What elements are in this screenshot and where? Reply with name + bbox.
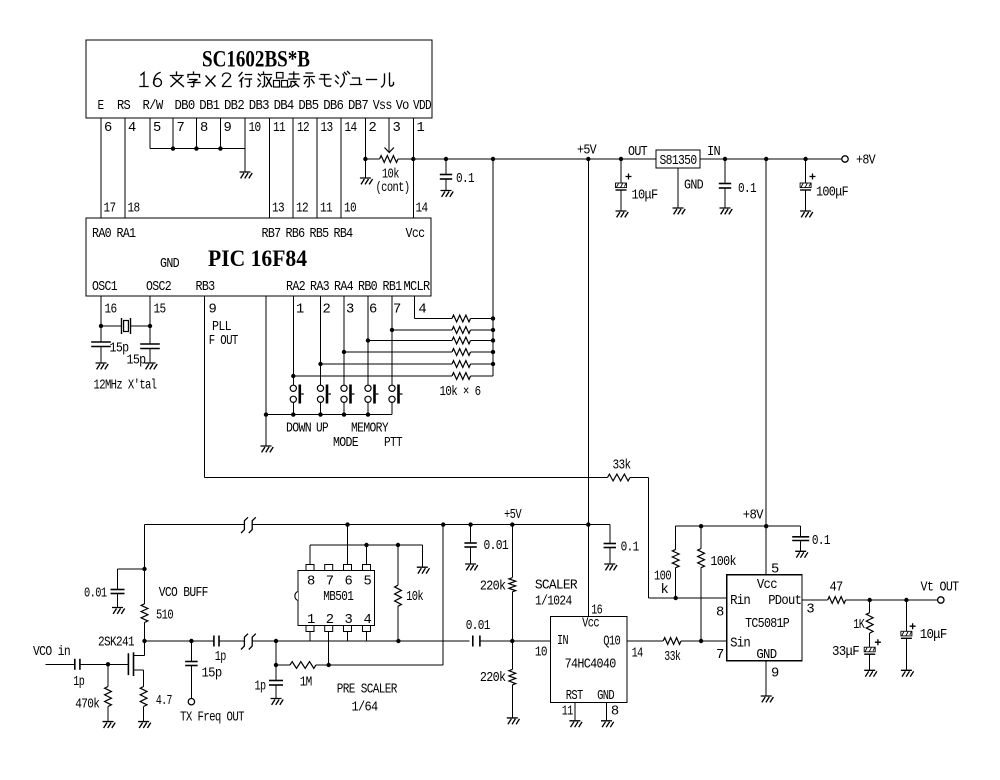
plus sign 10uF output (910, 623, 916, 629)
counter 74HC4040 box (551, 617, 628, 703)
junction DB2 on tie-low bus (218, 146, 222, 150)
ground 0.1 bypass at VDD (441, 191, 454, 197)
ground 0.01 bypass (465, 564, 478, 570)
svg-text:+5V: +5V (504, 508, 522, 523)
LCD subtitle Japanese 16chars x 2 lines LCD display module (drawn strokes) (140, 73, 148, 87)
svg-text:0.01: 0.01 (84, 587, 107, 602)
svg-text:8: 8 (611, 705, 619, 720)
ground MB501 bias net (417, 567, 430, 573)
resistor 10k pullup 2 (452, 327, 471, 334)
potentiometer 10k (cont) body (380, 156, 398, 163)
wire 74HC4040 GND to ground (606, 703, 608, 721)
svg-text:11: 11 (273, 121, 285, 136)
svg-text:5: 5 (364, 575, 372, 590)
wire pullup row 4 to +5V bus (471, 351, 494, 353)
wire 510 to drain node (144, 623, 146, 656)
junction 0.01 decoupling (142, 567, 146, 571)
junction pullup line RA3 (318, 362, 322, 366)
svg-text:(cont): (cont) (376, 180, 410, 196)
svg-text:PDout: PDout (768, 594, 801, 609)
terminal TX Freq OUT (188, 699, 194, 705)
svg-text:IN: IN (707, 145, 720, 160)
resistor 10k pullup 6 (452, 373, 471, 380)
wire LCD DB6 to PIC RB5 (316, 118, 318, 218)
junction pin2 bias (327, 663, 331, 667)
MB501 bottom pin 4 stub (363, 626, 371, 632)
svg-text:RA1: RA1 (117, 227, 136, 242)
svg-text:3: 3 (393, 121, 401, 136)
svg-text:RB6: RB6 (286, 227, 305, 242)
transistor Q1 drain lead (134, 655, 145, 657)
svg-text:VCO in: VCO in (33, 644, 70, 660)
wire MB501 pin6 up to +5V rail (347, 525, 349, 565)
svg-text:1/64: 1/64 (352, 700, 378, 716)
junction pullup bus row 5 (491, 362, 495, 366)
svg-text:2: 2 (369, 121, 377, 136)
junction bias feed on rail (441, 522, 445, 526)
capacitor 0.1 TC5081P bypass (800, 526, 802, 537)
svg-text:Vcc: Vcc (582, 617, 599, 632)
wire MB501 pin5 up (366, 545, 368, 565)
svg-text:DB0: DB0 (175, 99, 195, 114)
capacitor 0.01 coupling plates (472, 636, 474, 647)
resistor 33k series PLL F OUT (608, 474, 631, 481)
ground 0.01 VCO buffer (112, 608, 125, 614)
svg-text:33k: 33k (664, 649, 680, 665)
svg-text:470k: 470k (75, 697, 99, 713)
capacitor 0.1 bypass at regulator input (724, 159, 726, 184)
svg-text:1: 1 (307, 613, 315, 628)
wire 10kx6 +5V bus vertical (492, 159, 494, 376)
pushbutton switch PTT (389, 385, 395, 391)
svg-text:33k: 33k (613, 458, 631, 474)
MB501 top pin 8 stub (306, 565, 314, 571)
wire MB501 pin1 down to input line (309, 632, 311, 642)
svg-text:Q10: Q10 (603, 635, 620, 650)
svg-text:7: 7 (716, 648, 724, 663)
junction 100k number2 top (699, 524, 703, 528)
svg-text:1p: 1p (255, 680, 266, 695)
svg-text:74HC4040: 74HC4040 (565, 658, 616, 673)
wire 0.01 branch (118, 568, 145, 570)
wire PIC RA4 down to switch (343, 296, 345, 385)
junction 10k bias on input line (396, 639, 400, 643)
wire pullup row 3 to +5V bus (471, 340, 494, 342)
wire switch MEMORY to common rail (367, 402, 369, 414)
resistor 1K filter (869, 600, 871, 613)
wire pullup row 6 to +5V bus (471, 375, 494, 377)
svg-text:5: 5 (153, 121, 161, 136)
plus sign 100uF (810, 174, 816, 180)
junction +8V feed (764, 524, 768, 528)
wire MB501 pin3 down to input line (347, 632, 349, 642)
svg-text:Vo: Vo (396, 99, 409, 114)
capacitor 0.01 bypass bottom rail (470, 525, 472, 543)
svg-text:RB7: RB7 (262, 227, 281, 242)
svg-text:Vcc: Vcc (757, 578, 777, 593)
svg-text:15p: 15p (202, 667, 222, 682)
junction 1p/1M tap (274, 639, 278, 643)
junction 10k top bias net (396, 543, 400, 547)
junction DB0 on tie-low bus (171, 146, 175, 150)
wire +8V rail from S81350 IN to +8V terminal (700, 158, 842, 160)
svg-text:k: k (661, 582, 669, 598)
svg-text:1K: 1K (853, 618, 865, 633)
wire VCO input (46, 663, 75, 665)
ground 0.1 TC5081P (795, 551, 808, 557)
wire bias net pin8 pin5 to ground branch (310, 544, 422, 546)
svg-text:510: 510 (156, 609, 173, 624)
svg-text:F OUT: F OUT (209, 334, 238, 349)
ground 0.1 at regulator input (720, 208, 733, 214)
svg-text:8: 8 (307, 575, 315, 590)
wire switch PTT to common rail (391, 402, 393, 414)
junction 10uF filter (904, 598, 908, 602)
svg-text:RS: RS (117, 99, 130, 114)
wire 33k to TC5081P Sin (681, 640, 727, 642)
svg-text:PLL: PLL (212, 320, 231, 335)
MB501 bottom pin 2 stub (325, 626, 333, 632)
wire switch UP to common rail (320, 402, 322, 414)
regulator S81350 box (656, 150, 700, 168)
svg-text:0.1: 0.1 (456, 172, 474, 187)
svg-text:8: 8 (200, 121, 208, 136)
ground 1p MB501 (271, 699, 284, 705)
junction 15p tap (189, 639, 193, 643)
capacitor 100uF electrolytic (805, 159, 807, 183)
wire RB3 horizontal to 33k (205, 477, 608, 479)
svg-text:4.7: 4.7 (156, 694, 172, 709)
svg-text:17: 17 (104, 202, 116, 217)
svg-text:OSC1: OSC1 (92, 280, 117, 295)
svg-text:1p: 1p (73, 675, 84, 690)
line break symbol on +5V rail (241, 517, 248, 533)
ground 33uF (864, 670, 877, 676)
capacitor 0.1 bypass at rail end (609, 525, 611, 544)
svg-text:RB3: RB3 (196, 280, 215, 295)
svg-text:RA2: RA2 (286, 280, 305, 295)
svg-text:14: 14 (416, 202, 428, 217)
wire 1M to pin2 junction (316, 664, 443, 666)
junction 10uF on rail (619, 157, 623, 161)
prescaler MB501 body (298, 571, 375, 626)
svg-text:12MHz X'tal: 12MHz X'tal (94, 378, 157, 394)
crystal X1 12MHz leads (101, 325, 122, 327)
wire S81350 GND to ground (677, 168, 679, 208)
svg-text:220k: 220k (480, 670, 506, 686)
svg-text:100μF: 100μF (816, 186, 848, 201)
svg-text:MEMORY: MEMORY (351, 422, 389, 437)
svg-text:4: 4 (418, 303, 426, 318)
resistor 10k pullup 3 (452, 337, 471, 344)
ground 15p right (145, 363, 158, 369)
resistor 100k Rin pullup (675, 526, 677, 549)
junction drain node (142, 639, 146, 643)
wire +8V vertical feed down to TC5081P supply (765, 159, 767, 526)
wire LCD DB5 to PIC RB6 (292, 118, 294, 218)
svg-text:+8V: +8V (743, 509, 764, 524)
svg-text:7: 7 (326, 575, 334, 590)
capacitor 33uF electrolytic (869, 633, 871, 647)
wire bottom +5V rail with break (145, 524, 245, 526)
svg-text:DB1: DB1 (199, 99, 219, 114)
svg-text:RB5: RB5 (310, 227, 329, 242)
svg-text:15p: 15p (127, 354, 146, 369)
wire 1p cap branch below input line (275, 641, 277, 681)
wire MCLR down and right to pullup (413, 296, 415, 319)
resistor 10k MB501 bias (397, 545, 399, 585)
wire PIC RB0 down to switch (367, 296, 369, 385)
junction VDD on +5V rail (411, 157, 415, 161)
wire PIC RA3 down to switch (320, 296, 322, 385)
svg-text:11: 11 (320, 202, 332, 217)
svg-text:DB3: DB3 (249, 99, 269, 114)
wire pullup row 4 (344, 351, 452, 353)
wire Q10 output to 33k (627, 640, 663, 642)
svg-text:14: 14 (345, 121, 357, 136)
junction pullup line RB0 (366, 338, 370, 342)
resistor 4.7 source (140, 687, 147, 707)
junction switch rail UP (318, 412, 322, 416)
wire MB501 pin8 up to bias net (309, 545, 311, 565)
capacitor 1p input plates (74, 659, 76, 670)
junction 1M tap (274, 663, 278, 667)
terminal +8V input (842, 156, 848, 162)
capacitor 10uF output electrolytic (905, 600, 907, 631)
svg-text:2SK241: 2SK241 (98, 636, 134, 651)
junction switch rail DOWN (291, 412, 295, 416)
svg-text:2: 2 (323, 303, 331, 318)
capacitor 1p MB501 input plates (269, 680, 283, 682)
svg-text:MCLR: MCLR (404, 280, 430, 295)
svg-text:47: 47 (830, 581, 843, 596)
svg-text:11: 11 (562, 705, 573, 720)
svg-text:Sin: Sin (730, 636, 750, 652)
svg-text:DB5: DB5 (298, 99, 318, 114)
ground 74HC4040 RST (569, 721, 582, 727)
junction MB501 pin6 on rail (345, 522, 349, 526)
wire tie-low bus R/W DB0-DB3 (150, 148, 245, 150)
junction +8V feed down on rail (764, 157, 768, 161)
junction pullup line RB1 (390, 328, 394, 332)
wire TC5081P GND down (765, 661, 767, 696)
wiper arrow of contrast pot (385, 148, 394, 153)
svg-text:E: E (98, 99, 104, 114)
svg-text:GND: GND (756, 648, 776, 663)
plus sign 10uF (626, 174, 632, 180)
svg-text:100k: 100k (710, 554, 736, 570)
wire PIC GND pin down to switch rail and ground (265, 296, 267, 446)
wire pullup row 6 (293, 375, 452, 377)
wire MB501 pin2 down to bias line (328, 632, 330, 666)
ground 470k (103, 722, 116, 728)
junction pullup line RA2 (291, 374, 295, 378)
svg-text:13: 13 (321, 121, 333, 136)
wire LCD DB4 to PIC RB7 (269, 118, 271, 218)
junction pullup bus row 4 (491, 350, 495, 354)
ground 10uF output (901, 670, 914, 676)
svg-text:7: 7 (393, 303, 401, 318)
svg-text:10k: 10k (406, 589, 423, 605)
svg-text:1p: 1p (215, 650, 226, 665)
junction pullup bus row 3 (491, 338, 495, 342)
svg-text:DB7: DB7 (348, 99, 368, 114)
svg-text:Rin: Rin (730, 593, 750, 609)
ground 15p left (96, 363, 109, 369)
svg-text:RA4: RA4 (334, 280, 353, 295)
ground 0.1 rail end (604, 564, 617, 570)
wire PIC RB1 down to switch (391, 296, 393, 385)
svg-text:RA3: RA3 (310, 280, 329, 295)
capacitor 10uF electrolytic at regulator output (620, 159, 622, 183)
wire PIC OSC2 down (149, 296, 151, 344)
svg-text:4: 4 (364, 613, 372, 628)
resistor 510 drain load (141, 604, 148, 623)
ground 220k lower (507, 718, 520, 724)
junction 100k pulldown on Sin line (699, 639, 703, 643)
junction switch rail MODE (342, 412, 346, 416)
svg-text:1: 1 (296, 303, 304, 318)
svg-text:PTT: PTT (384, 436, 402, 451)
ground switch common (261, 446, 274, 452)
ground S81350 GND (673, 208, 686, 214)
svg-text:GND: GND (684, 179, 703, 194)
resistor 10k pullup 5 (452, 361, 471, 368)
wire PIC RB3 down (PLL F OUT) (204, 296, 206, 478)
transistor Q1 channel bar (133, 652, 135, 676)
microcontroller PIC 16F84 box (86, 218, 431, 296)
wire LCD DB7 to PIC RB4 (340, 118, 342, 218)
phase detector TC5081P box (727, 575, 802, 661)
svg-text:13: 13 (272, 202, 284, 217)
svg-text:GND: GND (597, 689, 614, 704)
wire MB501 pin4 down to input line (366, 632, 368, 642)
svg-text:DB6: DB6 (323, 99, 343, 114)
wire 74HC4040 RST to ground (574, 703, 576, 721)
wire 1p to break (219, 640, 244, 642)
junction 1K filter (868, 598, 872, 602)
wire +5V rail from Vss junction to S81350 OUT (365, 158, 379, 160)
junction DB1 on tie-low bus (194, 146, 198, 150)
capacitor 1p coupling plates (213, 636, 215, 647)
ground 10uF (616, 211, 629, 217)
svg-text:SC1602BS*B: SC1602BS*B (202, 47, 310, 72)
svg-text:3: 3 (346, 303, 354, 318)
svg-text:PIC 16F84: PIC 16F84 (208, 246, 307, 271)
wire pullup row 5 (321, 363, 453, 365)
junction pullup line RA4 (342, 350, 346, 354)
svg-text:IN: IN (557, 634, 568, 649)
MB501 top pin 6 stub (344, 565, 352, 571)
wire LCD DB3 down to tie-low bus (244, 118, 246, 149)
junction 0.1 on +8V rail (723, 157, 727, 161)
svg-text:0.01: 0.01 (484, 539, 509, 554)
wire bias line up to +5V rail (442, 525, 444, 665)
svg-text:12: 12 (296, 202, 308, 217)
wire pullup row 3 (368, 340, 452, 342)
wire LCD Vo to potentiometer wiper (388, 118, 390, 153)
svg-text:0.1: 0.1 (621, 541, 639, 556)
svg-text:0.1: 0.1 (738, 182, 756, 197)
wire +8V distribution line (676, 525, 801, 527)
svg-text:S81350: S81350 (660, 154, 697, 169)
resistor 1M input bias (290, 662, 316, 669)
wire PDout to 47 (802, 599, 828, 601)
svg-text:TC5081P: TC5081P (745, 617, 789, 632)
svg-text:RB1: RB1 (383, 280, 402, 295)
svg-text:0.1: 0.1 (812, 534, 830, 549)
svg-text:VDD: VDD (413, 99, 431, 114)
resistor 470k gate bias (107, 664, 109, 686)
pushbutton switch UP (317, 385, 323, 391)
svg-text:9: 9 (224, 121, 232, 136)
junction +5V feed on rail (586, 522, 590, 526)
resistor 220k lower divider (511, 641, 513, 669)
svg-text:RST: RST (566, 689, 583, 704)
wire pullup row 2 to +5V bus (471, 329, 494, 331)
ground 74HC4040 GND (601, 721, 614, 727)
svg-text:10: 10 (535, 646, 547, 661)
wire switch common rail (266, 414, 392, 416)
svg-text:DB2: DB2 (224, 99, 244, 114)
svg-text:10μF: 10μF (920, 628, 947, 643)
svg-text:PRE SCALER: PRE SCALER (337, 683, 397, 698)
svg-text:3: 3 (345, 613, 353, 628)
wire 1p to gate (80, 663, 128, 665)
ground 100uF (800, 211, 813, 217)
ground tie-low bus (240, 172, 253, 178)
junction pin5 bias net (364, 543, 368, 547)
MB501 bottom pin 3 stub (344, 626, 352, 632)
junction 100k pullup on Rin line (674, 596, 678, 600)
wire LCD E to PIC RA0 (100, 118, 102, 218)
junction switch rail MEMORY (366, 412, 370, 416)
LCD module SC1602BS*B box (86, 40, 432, 118)
transistor Q1 2SK241 FET gate bar (127, 653, 129, 675)
wire +5V vertical feed from rail to bottom rail and 74HC4040 Vcc (587, 159, 589, 617)
capacitor 15p right plates (140, 343, 160, 345)
pushbutton switch MODE (341, 385, 347, 391)
MB501 bottom pin 1 stub (306, 626, 314, 632)
junction 0.01 bypass on rail (468, 522, 472, 526)
junction 220k divider on rail (510, 522, 514, 526)
wire PIC RA2 down to switch (292, 296, 294, 385)
wire break to MB501 input (252, 640, 469, 642)
ground 4.7 source (138, 722, 151, 728)
svg-text:3: 3 (806, 603, 814, 618)
junction pullup bus row 2 (491, 328, 495, 332)
junction OSC2 crystal (148, 324, 152, 328)
wire VCO buffer supply from rail (144, 525, 146, 604)
svg-text:5: 5 (771, 563, 779, 578)
ground TC5081P (761, 696, 774, 702)
svg-text:Vss: Vss (373, 99, 392, 114)
svg-text:1M: 1M (300, 676, 312, 691)
svg-text:VCO BUFF: VCO BUFF (159, 586, 208, 601)
svg-text:10k × 6: 10k × 6 (440, 384, 481, 400)
wire bias net down to ground (421, 545, 423, 567)
capacitor 15p left plates (91, 341, 111, 343)
wire pullup row 5 to +5V bus (471, 363, 494, 365)
wire LCD DB1 down to tie-low bus (195, 118, 197, 149)
svg-text:9: 9 (209, 303, 217, 318)
capacitor 0.1 bypass at VDD (445, 159, 447, 175)
svg-text:SCALER: SCALER (535, 579, 577, 594)
junction 100uF on +8V rail (803, 157, 807, 161)
wire 1M left lead (276, 664, 290, 666)
resistor 220k upper divider (511, 525, 513, 578)
MB501 notch (295, 592, 298, 601)
